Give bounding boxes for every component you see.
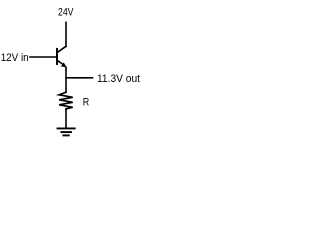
wire base input xyxy=(30,56,57,58)
transistor Q1 emitter lead xyxy=(58,61,65,66)
ground bar 1 xyxy=(58,127,75,129)
ground bar 3 xyxy=(63,134,68,136)
wire output branch xyxy=(66,77,93,79)
wire resistor to ground xyxy=(65,109,67,128)
wire emitter vertical xyxy=(65,67,67,92)
svg-text:24V: 24V xyxy=(58,7,74,19)
transistor Q1 emitter arrowhead xyxy=(61,62,67,67)
transistor Q1 base bar xyxy=(56,49,58,64)
svg-text:11.3V out: 11.3V out xyxy=(97,73,140,85)
svg-text:R: R xyxy=(83,96,90,108)
wire collector supply vertical xyxy=(65,22,67,46)
svg-text:12V in: 12V in xyxy=(1,52,29,64)
ground bar 2 xyxy=(61,131,71,133)
transistor Q1 collector lead xyxy=(58,46,66,52)
resistor R zigzag xyxy=(59,92,73,109)
